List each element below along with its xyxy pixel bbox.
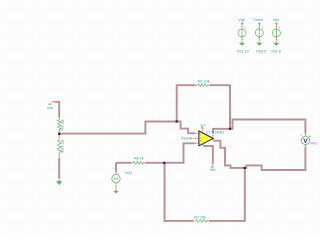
svg-text:Vsom: Vsom	[253, 18, 262, 22]
svg-text:Vee: Vee	[273, 18, 279, 22]
svg-text:VG1: VG1	[125, 171, 132, 175]
svg-text:Vsom: Vsom	[181, 136, 191, 140]
svg-text:-: -	[200, 143, 201, 146]
svg-text:Vss: Vss	[47, 106, 53, 110]
svg-text:U1 TL54081: U1 TL54081	[206, 131, 224, 135]
svg-text:R6 10k: R6 10k	[198, 79, 210, 83]
svg-text:Vee: Vee	[210, 168, 216, 172]
svg-text:+: +	[244, 26, 246, 30]
svg-text:R7 10k: R7 10k	[194, 215, 206, 219]
svg-text:+: +	[261, 26, 263, 30]
svg-text:R5 20k: R5 20k	[60, 120, 64, 132]
svg-text:+: +	[117, 172, 119, 176]
svg-text:VS1 10: VS1 10	[237, 50, 249, 54]
svg-text:R8 1k: R8 1k	[134, 157, 144, 161]
svg-text:+: +	[279, 26, 281, 30]
svg-text:Vpp: Vpp	[238, 18, 245, 22]
svg-text:+: +	[300, 134, 302, 138]
svg-text:V: V	[303, 138, 308, 145]
svg-text:VM1: VM1	[310, 142, 317, 146]
svg-text:R2 120k: R2 120k	[60, 140, 64, 154]
svg-text:VS2 8: VS2 8	[271, 50, 281, 54]
svg-text:VS3 5: VS3 5	[256, 50, 266, 54]
svg-text:Vpp: Vpp	[200, 123, 206, 127]
